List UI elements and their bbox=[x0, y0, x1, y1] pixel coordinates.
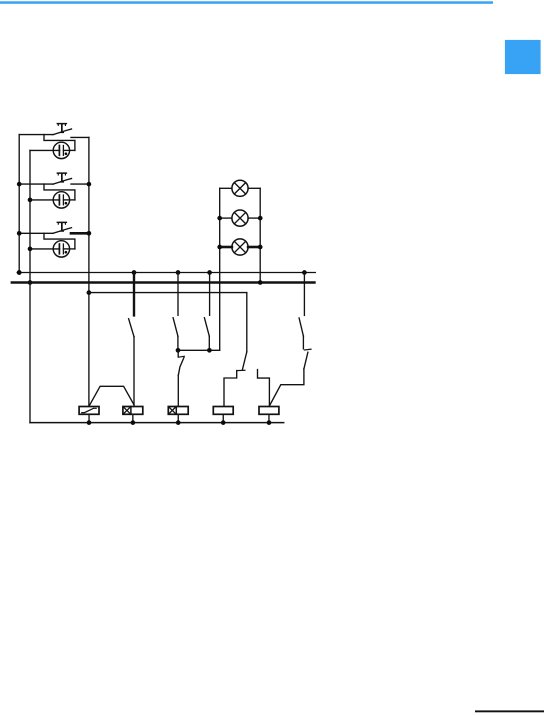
relay coil K4 bbox=[213, 407, 233, 415]
contact K1 lower wire to coil K2 bbox=[133, 337, 135, 407]
contact K5 NC tick bbox=[304, 348, 311, 351]
coil K3 bottom lead bbox=[177, 414, 179, 422]
contact K1 upper terminal (thick) bbox=[133, 273, 135, 316]
coil K1 slow-release mark bbox=[82, 408, 96, 412]
pushbutton S1 T-handle bbox=[57, 123, 68, 133]
lamp H1 left lead bbox=[220, 187, 232, 189]
switch S1 right wire bbox=[71, 136, 89, 138]
stub wire to coil K5 bbox=[258, 370, 270, 407]
NC contact K6 blade bbox=[178, 358, 184, 376]
NC contact K6 upper stub bbox=[177, 350, 179, 356]
pushbutton S2 T-handle bbox=[57, 172, 68, 182]
capacitor C2 polarity dot bbox=[65, 202, 68, 205]
capacitor C3 polarity dot bbox=[65, 251, 68, 254]
junction wire of K2/K3 and lamp rail bbox=[178, 349, 220, 351]
capacitor C3 right lead bbox=[63, 248, 75, 250]
capacitor C2 right lead bbox=[63, 199, 75, 201]
junction dots bottom bus bbox=[87, 420, 92, 425]
capacitor C1 circle bbox=[53, 142, 69, 158]
relay coil K2 bbox=[123, 407, 143, 415]
contact K5 NO blade bbox=[299, 318, 303, 336]
contact K3 upper terminal bbox=[209, 273, 211, 316]
relay coil K3 bbox=[168, 407, 188, 415]
actuator link S1 bbox=[44, 135, 75, 151]
contact K2 blade bbox=[173, 318, 178, 337]
lamp H1 bbox=[232, 180, 248, 196]
blue chapter tab bbox=[505, 40, 541, 74]
capacitor C1 left lead bbox=[30, 149, 60, 151]
switch S3 right wire bbox=[71, 232, 89, 235]
coil K1 bottom lead bbox=[88, 414, 90, 422]
junction dots on buses bbox=[17, 270, 22, 275]
contact K2 upper terminal bbox=[177, 273, 179, 316]
contact K5 upper terminal bbox=[303, 273, 305, 316]
bus line L1 bbox=[17, 272, 315, 274]
capacitor C3 circle bbox=[53, 241, 69, 257]
switch S1 left wire bbox=[19, 134, 53, 136]
relay coil K1 bbox=[79, 407, 99, 415]
switch S2 blade bbox=[53, 179, 72, 185]
capacitor C2 circle bbox=[53, 192, 69, 208]
footer rule bbox=[475, 710, 544, 712]
actuator link S2 bbox=[44, 184, 75, 200]
relay coil K5 bbox=[259, 407, 279, 415]
coil K5 bottom lead bbox=[268, 414, 270, 422]
lamp H1 right lead bbox=[248, 187, 260, 189]
junction dots left rails bbox=[17, 182, 22, 187]
capacitor C2 plates bbox=[58, 195, 60, 205]
wire: lamp right rail bbox=[259, 188, 261, 282]
NC contact K4 tick bbox=[237, 369, 245, 371]
wire from K5 to coil K5 bbox=[269, 369, 304, 406]
capacitor C3 left lead bbox=[30, 248, 60, 250]
lamp H3 bbox=[232, 239, 248, 255]
NC contact K6 tick bbox=[178, 355, 184, 358]
NC contact K4 upper terminal bbox=[246, 293, 248, 352]
contact K1 blade bbox=[129, 319, 134, 337]
switch S2 right wire bbox=[71, 183, 89, 185]
capacitor C1 right lead bbox=[63, 149, 75, 151]
wire to coil K3 bbox=[177, 375, 179, 406]
switch S1 blade bbox=[53, 129, 72, 135]
lamp H3 right lead bbox=[248, 246, 260, 249]
actuator link S3 bbox=[44, 233, 75, 249]
NC contact K4 hook wire to coil K4 bbox=[224, 371, 237, 407]
lamp H2 right lead bbox=[248, 217, 260, 219]
coil K3 divider and X bbox=[175, 407, 177, 415]
lamp H2 left lead bbox=[220, 217, 232, 219]
capacitor C3 plates bbox=[58, 244, 60, 254]
wire: left supply rail bbox=[18, 135, 20, 273]
contact K5 mid wire bbox=[302, 336, 304, 349]
lamp H3 left lead bbox=[220, 246, 232, 249]
contact K5 NC blade bbox=[304, 352, 308, 369]
junction dots lamp rails bbox=[217, 216, 222, 221]
blue header rule bbox=[0, 1, 493, 4]
pushbutton S3 T-handle bbox=[57, 222, 68, 232]
coil K2 divider and X bbox=[130, 407, 132, 415]
bus line L2 (thick) bbox=[12, 281, 315, 284]
wire: lamp left rail bbox=[219, 188, 221, 350]
capacitor C1 polarity dot bbox=[65, 152, 68, 155]
wire: capacitor feed rail down to bottom bus bbox=[29, 150, 31, 422]
contact K2 lower terminal bbox=[177, 336, 179, 350]
wire bridge over coil K1 bbox=[89, 386, 134, 406]
switch S3 left wire bbox=[19, 232, 53, 234]
contact K3 blade bbox=[204, 318, 209, 337]
bus line from relay rail bbox=[89, 292, 247, 294]
switch S2 left wire bbox=[19, 183, 53, 185]
capacitor C1 plates bbox=[58, 146, 60, 156]
coil K4 bottom lead bbox=[222, 414, 224, 422]
coil K2 bottom lead bbox=[132, 414, 134, 422]
capacitor C2 left lead bbox=[30, 199, 60, 201]
wire: left-block right rail bbox=[88, 137, 90, 406]
bottom return bus bbox=[30, 422, 284, 424]
switch S3 blade bbox=[53, 228, 72, 234]
NC contact K4 blade bbox=[242, 352, 246, 370]
lamp H2 bbox=[232, 210, 248, 226]
contact K3 lower terminal bbox=[208, 336, 210, 350]
